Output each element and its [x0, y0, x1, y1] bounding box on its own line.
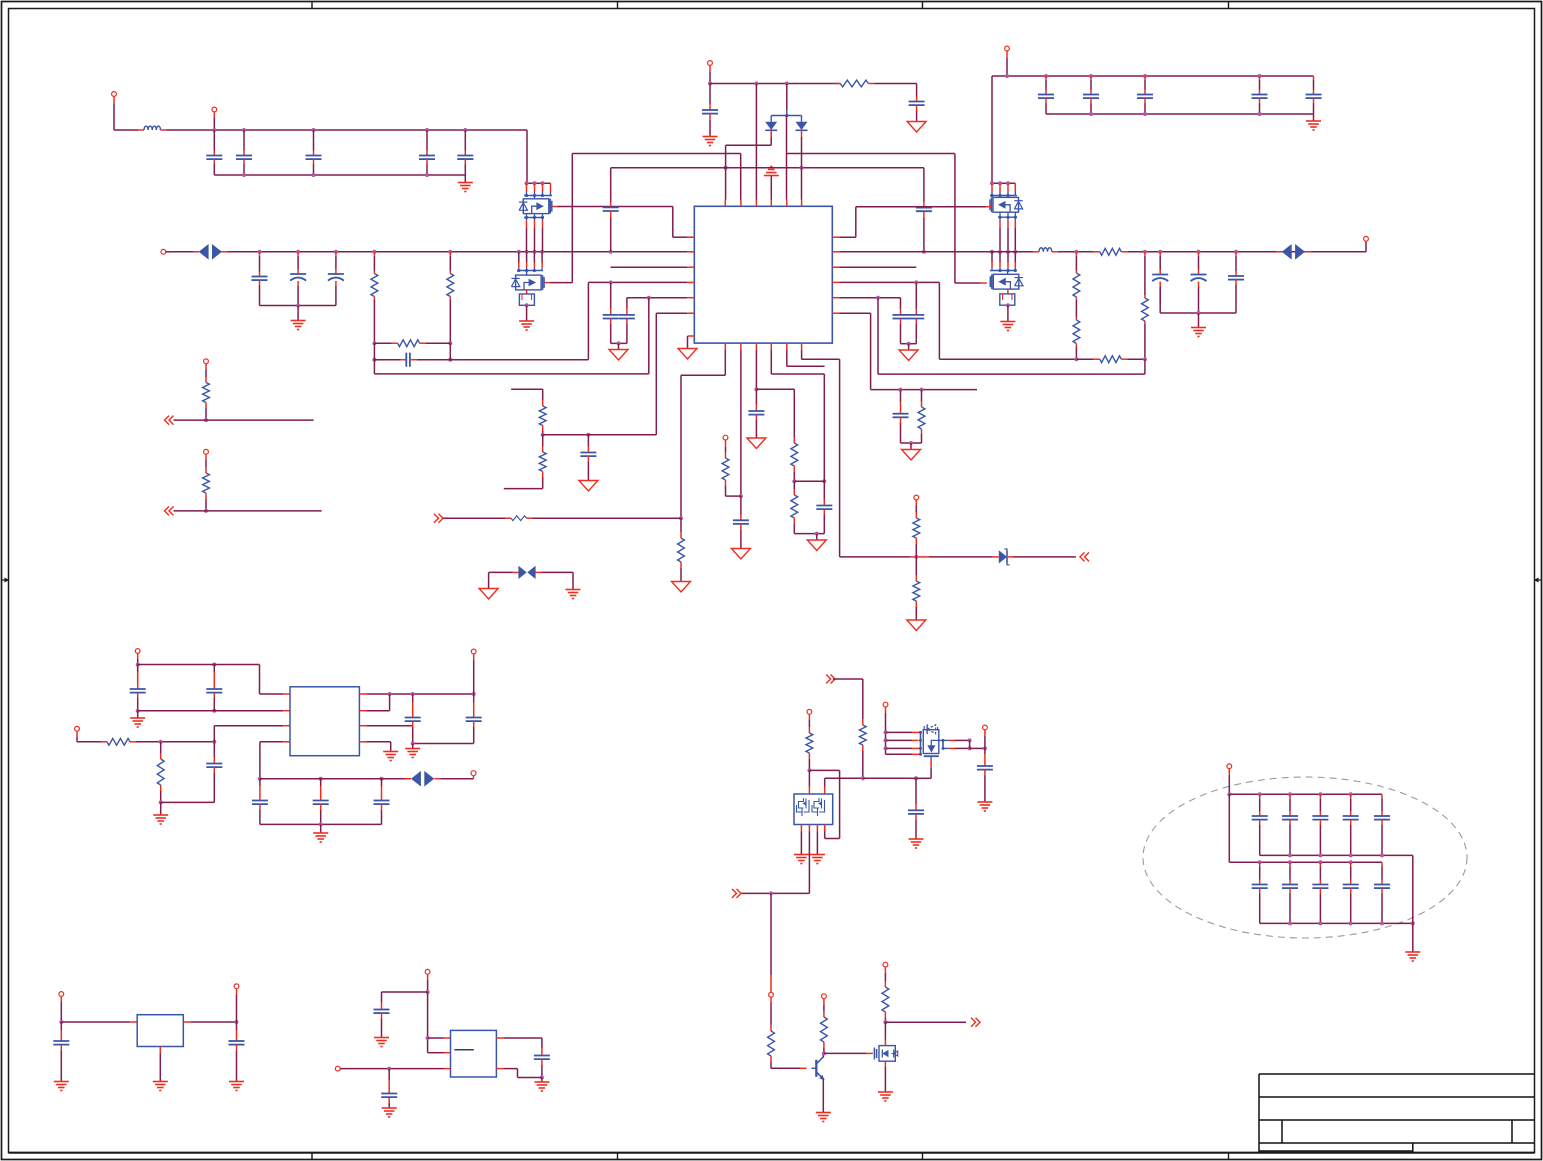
junction: [136, 709, 140, 713]
capacitor C34: [412, 694, 414, 702]
wire: [161, 129, 167, 131]
capacitor C23: [915, 282, 917, 309]
IC U5 dual MOSFET: [794, 794, 833, 825]
port P4: [1365, 241, 1367, 252]
ground: [383, 751, 398, 753]
port P1: [112, 92, 117, 97]
wire M1 source: [930, 756, 932, 760]
wire: [214, 174, 465, 176]
port P12: [75, 726, 80, 731]
capacitor C26: [626, 298, 628, 308]
junction: [679, 516, 683, 520]
capacitor C19 polarized: [1159, 252, 1161, 256]
wire: [359, 725, 366, 727]
capacitor C17: [1259, 76, 1261, 80]
capacitor C25: [610, 282, 612, 308]
junction: [1227, 792, 1231, 796]
wire U3 gnd pin: [159, 1047, 161, 1055]
port P17: [983, 725, 988, 730]
wire cap bank mid bus: [1260, 854, 1413, 856]
wire: [165, 506, 170, 515]
port P6: [1005, 46, 1010, 51]
resistor R11: [542, 400, 544, 406]
ground: [382, 1107, 397, 1109]
port P13: [471, 649, 476, 654]
capacitor C15: [1090, 76, 1092, 80]
wire U1 pin risers: [755, 84, 757, 200]
capacitor C46: [1259, 794, 1261, 798]
resistor R13 small: [511, 516, 527, 521]
resistor R14: [680, 518, 682, 532]
wire Q4 drain straps: [999, 252, 1001, 262]
ground: [572, 572, 574, 589]
wire: [1412, 855, 1414, 951]
capacitor C13 bootstrap right: [923, 168, 925, 202]
capacitor C49: [1350, 794, 1352, 798]
transistor Q3: [993, 197, 1019, 212]
capacitor C20 polarized: [1198, 252, 1200, 256]
port P5: [708, 61, 713, 66]
transistor Q2: [516, 275, 542, 290]
diode D2: [801, 116, 803, 122]
wire: [114, 129, 138, 131]
capacitor C48: [1319, 794, 1321, 798]
transistor Q1: [523, 199, 549, 214]
capacitor C52: [1289, 862, 1291, 866]
wire M1 right pins: [939, 739, 943, 741]
wire: [138, 710, 284, 712]
wire phase node: [611, 167, 924, 169]
wire: [138, 664, 260, 666]
port P21: [59, 992, 64, 997]
wire signal out: [885, 1021, 966, 1023]
port P23: [425, 969, 430, 974]
resistor R24: [862, 719, 864, 725]
transistor Q5 BJT: [812, 1067, 817, 1069]
capacitor C2: [243, 151, 245, 156]
wire gate boot line: [572, 153, 740, 155]
wire Q3 source straps: [998, 216, 1017, 218]
capacitor C38: [381, 779, 383, 786]
wire pin801 bottom: [801, 350, 803, 359]
wire main rail left: [222, 251, 228, 253]
wire pin298 left: [627, 297, 687, 299]
wire: [535, 571, 541, 573]
resistor R21: [205, 467, 207, 473]
wire gate feed: [826, 675, 831, 684]
wire: [824, 825, 826, 832]
capacitor C10 bootstrap: [610, 168, 612, 202]
wire U5 bottom pins: [800, 825, 802, 832]
junction: [815, 532, 819, 536]
wire pin741 bottom: [740, 350, 742, 496]
capacitor C44: [388, 1069, 390, 1080]
wire: [77, 741, 101, 743]
ground: [488, 572, 490, 588]
junction: [769, 891, 773, 895]
wire: [1144, 359, 1146, 374]
ground: [153, 1081, 168, 1083]
diode D1: [765, 122, 777, 130]
ground: [160, 802, 162, 814]
transistor M1: [920, 731, 922, 756]
ground: [1198, 313, 1200, 327]
wire Q3 gate line: [986, 206, 991, 208]
capacitor C21: [1235, 252, 1237, 256]
wire pin267 stub right: [839, 266, 916, 268]
capacitor C18: [1313, 76, 1315, 80]
ground: [703, 136, 718, 138]
port P25: [1227, 764, 1232, 769]
dashed ellipse: [1143, 777, 1467, 938]
capacitor C37: [320, 779, 322, 786]
wire: [901, 442, 922, 444]
wire: [489, 571, 513, 573]
wire: [434, 778, 440, 780]
capacitor C50: [1381, 794, 1383, 798]
port P18: [769, 992, 774, 997]
resistor R4: [834, 83, 840, 85]
junction: [387, 1067, 391, 1071]
TVS D7: [411, 771, 421, 787]
resistor R6: [1075, 252, 1077, 256]
wire Q1 top bus: [527, 182, 551, 184]
ground: [878, 1091, 893, 1093]
capacitor C22: [900, 298, 902, 309]
resistor R10: [921, 390, 923, 401]
capacitor C14: [1045, 76, 1047, 80]
wire pin282 net right: [839, 281, 939, 283]
resistor R1: [373, 252, 375, 256]
wire: [901, 343, 917, 345]
capacitor C16: [1144, 76, 1146, 80]
ground: [977, 801, 992, 803]
IC U1: [694, 206, 832, 343]
wire pin725 bottom: [724, 350, 726, 375]
wire pin771 bottom: [770, 350, 772, 374]
resistor R16: [793, 389, 795, 437]
ground: [908, 344, 910, 350]
TVS D4: [1282, 244, 1292, 260]
TVS D6: [518, 566, 526, 579]
wire: [260, 305, 336, 307]
resistor R2: [449, 252, 451, 256]
port P19: [822, 994, 827, 999]
capacitor C40: [915, 778, 917, 786]
capacitor C31: [137, 665, 139, 684]
junction: [372, 341, 376, 345]
capacitor C36: [259, 779, 261, 786]
capacitor C41: [60, 1022, 62, 1030]
wire: [822, 1053, 824, 1057]
capacitor C42: [236, 1022, 238, 1030]
port P7: [723, 435, 728, 440]
capacitor C28: [740, 496, 742, 514]
wire gate drive right: [786, 116, 788, 154]
capacitor C9: [374, 359, 400, 361]
wire Q2 gate: [545, 282, 550, 284]
resistor R7: [1075, 297, 1077, 300]
junction: [540, 1076, 544, 1080]
ground: [794, 854, 809, 856]
ground: [137, 711, 139, 718]
port P3: [161, 249, 166, 254]
capacitor C43: [381, 1002, 383, 1010]
junction: [792, 479, 796, 483]
wire: [863, 777, 910, 779]
capacitor C39: [984, 748, 986, 754]
resistor R3: [374, 342, 391, 344]
port P16: [883, 702, 888, 707]
wire: [1228, 794, 1230, 862]
wire M2 source: [884, 1061, 886, 1067]
wire U2 en: [359, 741, 366, 743]
wire Q1 drain riser: [526, 130, 528, 183]
capacitor C55: [1381, 862, 1383, 866]
ground: [54, 1081, 69, 1083]
wire: [359, 710, 366, 712]
wire Q3 top bus: [992, 182, 1015, 184]
junction: [861, 776, 865, 780]
ground: [374, 1037, 389, 1039]
wire pin282 left: [588, 281, 687, 283]
transistor Q1 pin cage top: [526, 183, 528, 191]
ground: [297, 306, 299, 321]
IC U2: [290, 687, 359, 756]
transistor M2: [884, 1022, 886, 1039]
capacitor C32: [213, 665, 215, 673]
ground: [1405, 951, 1420, 953]
ground: [464, 175, 466, 182]
wire: [511, 388, 543, 390]
wire: [809, 769, 839, 771]
capacitor C30: [823, 481, 825, 499]
resistor R18: [915, 512, 917, 518]
inductor L1: [144, 126, 161, 130]
wire pin313 left: [656, 312, 687, 314]
junction: [708, 82, 712, 86]
capacitor C8 polarized: [335, 252, 337, 256]
wire U4 right: [496, 1037, 503, 1039]
wire: [413, 743, 474, 745]
wire: [166, 251, 172, 253]
junction: [159, 740, 163, 744]
junction: [204, 418, 208, 422]
wire Q1 source straps: [524, 217, 544, 219]
capacitor C35: [473, 694, 475, 702]
resistor R5: [1094, 251, 1100, 253]
wire: [840, 556, 911, 558]
ground: [1313, 114, 1315, 121]
ground: [672, 582, 691, 593]
capacitor C24: [900, 390, 902, 402]
ground: [907, 122, 926, 133]
junction: [426, 990, 430, 994]
resistor R12: [542, 435, 544, 446]
junction: [212, 128, 216, 132]
port P11: [135, 649, 140, 654]
junction: [990, 250, 994, 254]
junction: [807, 768, 811, 772]
transistor Q4: [993, 274, 1019, 289]
wire feedback: [373, 360, 375, 374]
wire: [340, 1068, 443, 1070]
wire output bus: [260, 778, 405, 780]
junction: [59, 1020, 63, 1024]
wire cap bank top bus: [1229, 793, 1382, 795]
junction: [883, 1020, 887, 1024]
IC U3: [137, 1015, 183, 1047]
ground: [412, 744, 414, 749]
border zone ticks: [311, 2, 313, 9]
ground U1 bottom-left: [688, 335, 695, 337]
wire: [1052, 251, 1058, 253]
wire U5 top pin2 loop: [824, 787, 826, 795]
wire pin756 bottom: [755, 350, 757, 389]
junction: [235, 1020, 239, 1024]
wire: [808, 770, 810, 786]
wire: [165, 416, 170, 425]
capacitor C27: [587, 435, 589, 446]
capacitor C7 polarized: [297, 252, 299, 256]
wire port riser: [770, 893, 772, 975]
ground: [909, 838, 924, 840]
wire: [427, 992, 429, 1053]
ground: [816, 1112, 831, 1114]
wire gate cross-couple: [571, 154, 573, 283]
ground inverted above U1: [770, 176, 772, 200]
capacitor C33: [213, 742, 215, 757]
resistor R25: [808, 727, 810, 733]
wire main rail right: [839, 251, 1033, 253]
junction: [258, 777, 262, 781]
ground: [747, 438, 766, 449]
wire diode tie bar: [771, 115, 801, 117]
wire: [183, 1021, 190, 1023]
transistor Q2 source pad: [526, 290, 528, 294]
junction: [1197, 311, 1201, 315]
ground: [579, 481, 598, 492]
wire D2 leg: [801, 130, 803, 137]
capacitor C1: [213, 151, 215, 156]
capacitor C45: [541, 1048, 543, 1056]
wire: [771, 1067, 800, 1069]
capacitor C4: [426, 151, 428, 156]
resistor R17: [793, 481, 795, 489]
wire: [816, 825, 818, 832]
wire D1 leg: [770, 130, 772, 137]
wire: [213, 726, 215, 742]
resistor R8: [1144, 252, 1146, 256]
port P14: [473, 776, 475, 779]
wire M1 left pins: [886, 731, 913, 733]
ground: [910, 443, 912, 450]
wire top bus: [710, 83, 840, 85]
junction: [884, 730, 888, 734]
ground: [618, 343, 620, 349]
junction: [822, 1051, 826, 1055]
wire pin313 net right: [839, 312, 870, 314]
wire: [260, 823, 382, 825]
capacitor C6: [259, 252, 261, 256]
resistor R9: [1094, 358, 1100, 360]
transistor Q4 source pad: [1007, 289, 1009, 294]
ground: [810, 854, 825, 856]
capacitor C51: [1259, 862, 1261, 866]
wire: [611, 342, 627, 344]
junction: [136, 663, 140, 667]
title block: [1259, 1074, 1535, 1153]
ground: [541, 1078, 543, 1082]
capacitor C29: [755, 389, 757, 404]
port P9: [204, 359, 209, 364]
port P10: [204, 449, 209, 454]
capacitor C12: [709, 84, 711, 89]
port P8: [914, 495, 919, 500]
ground: [229, 1081, 244, 1083]
wire to chevron: [741, 892, 809, 894]
junction: [541, 433, 545, 437]
ground: [816, 534, 818, 540]
wire: [822, 1079, 824, 1112]
wire U2 left4 pgnd: [283, 741, 290, 743]
ground: [320, 824, 322, 832]
wire to chevron: [1080, 552, 1085, 561]
wire pin298 net right: [839, 297, 900, 299]
resistor R22: [107, 738, 130, 745]
wire: [543, 434, 657, 436]
IC U4: [451, 1030, 497, 1077]
port P22: [234, 984, 239, 989]
resistor R27: [823, 1011, 825, 1017]
wire: [496, 1068, 503, 1070]
wire cap bank bottom bus: [1260, 922, 1413, 924]
ground: [526, 305, 528, 320]
transistor Q3 pin cage top: [991, 183, 993, 191]
wire gate link: [824, 1052, 866, 1054]
resistor R26: [770, 1025, 772, 1031]
wire Q1 gate line: [553, 206, 558, 208]
ground: [1007, 305, 1009, 321]
capacitor C54: [1350, 862, 1352, 866]
wire: [61, 1021, 130, 1023]
ground: [731, 549, 750, 560]
wire pin787 bottom stub: [786, 350, 788, 366]
inductor L3: [1039, 248, 1052, 252]
wire pin267 stub left: [611, 266, 688, 268]
port P2: [212, 107, 217, 112]
wire Q2 drain straps: [518, 252, 520, 262]
wire U2 right out: [359, 693, 366, 695]
ground: [907, 620, 926, 631]
diode D5 schottky: [993, 556, 999, 558]
wire top-right bus: [992, 75, 1314, 77]
capacitor C53: [1319, 862, 1321, 866]
port P24: [335, 1066, 340, 1071]
capacitor C11: [916, 84, 918, 97]
port P20: [883, 962, 888, 967]
wire: [382, 991, 428, 993]
capacitor C47: [1289, 794, 1291, 798]
wire: [1046, 113, 1314, 115]
port P15: [807, 709, 812, 714]
junction: [159, 800, 163, 804]
resistor R23: [160, 742, 162, 753]
TVS D3: [199, 244, 209, 260]
resistor R20: [205, 377, 207, 383]
resistor R19: [915, 557, 917, 575]
capacitor C3: [313, 151, 315, 156]
